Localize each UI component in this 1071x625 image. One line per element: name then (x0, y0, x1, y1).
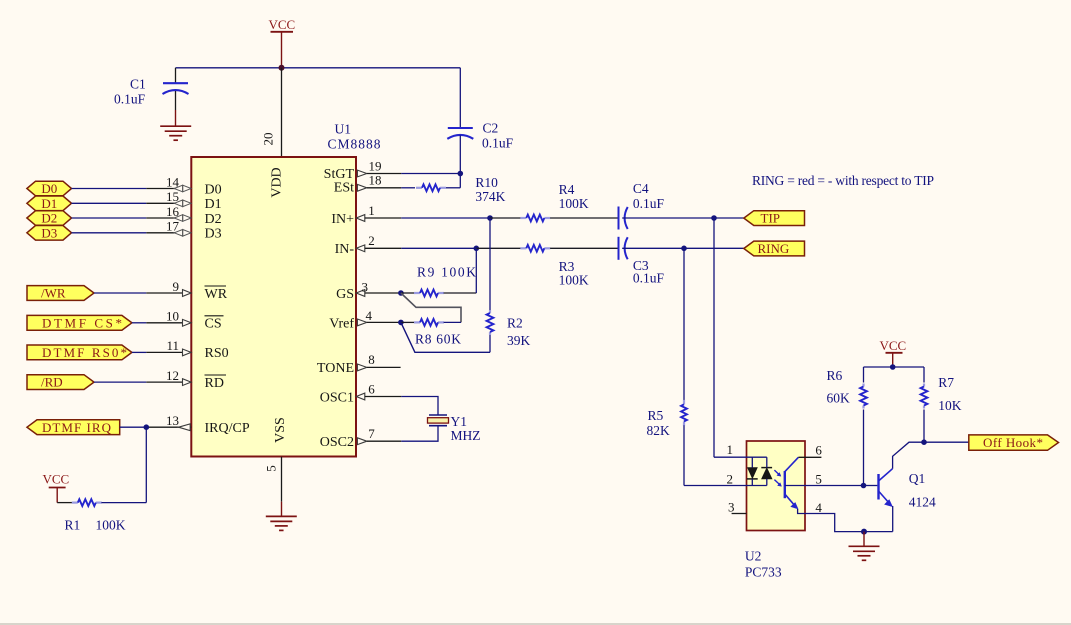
junction RING / R5 (681, 246, 687, 252)
svg-text:5: 5 (815, 472, 822, 487)
wire VCC rail (C1 to C2) (176, 67, 461, 69)
svg-text:0.1uF: 0.1uF (633, 196, 665, 211)
resistor R7 (921, 367, 928, 442)
pin number 18 (369, 173, 382, 188)
port flag /WR (27, 286, 94, 301)
pin name RD (overline) (205, 375, 227, 391)
pin arrow (bidir) D0 (174, 185, 191, 192)
svg-text:3: 3 (362, 280, 369, 295)
svg-text:18: 18 (369, 173, 382, 188)
port flag DTMF CS* (27, 315, 132, 330)
svg-text:13: 13 (166, 413, 179, 428)
pin number 14 (166, 174, 180, 189)
port flag D3 (27, 225, 72, 240)
C4 value 0.1uF (633, 181, 665, 211)
svg-text:60K: 60K (827, 391, 851, 406)
svg-text:2: 2 (368, 233, 375, 248)
svg-text:6: 6 (815, 443, 822, 458)
wire IN- to node (365, 247, 477, 249)
pin arrow IRQ output (179, 424, 191, 431)
svg-text:9: 9 (173, 279, 180, 294)
svg-text:D3: D3 (41, 225, 57, 240)
svg-text:100K: 100K (559, 272, 589, 287)
svg-text:10K: 10K (938, 398, 962, 413)
wire to U2 pin 1 (714, 456, 767, 458)
svg-text:IN-: IN- (335, 242, 355, 257)
wire TONE stub (367, 366, 401, 368)
svg-text:IRQ/CP: IRQ/CP (205, 421, 250, 436)
pin name D1 (205, 197, 222, 212)
pin name D0 (205, 182, 222, 197)
svg-text:D2: D2 (205, 212, 222, 227)
wire /RD to U1 pin 12 (94, 381, 191, 383)
pin number 16 (166, 204, 180, 219)
pin arrow ESt output (357, 184, 366, 191)
resistor R2 (487, 218, 494, 352)
pin number 1 (368, 203, 375, 218)
power symbol VCC (R6 R7) (880, 338, 907, 367)
pin arrow TONE output (357, 364, 366, 371)
pin number 6 (368, 381, 375, 396)
pin arrow StGT output (357, 170, 366, 177)
svg-text:RS0: RS0 (205, 346, 229, 361)
svg-text:7: 7 (368, 426, 375, 441)
pin number 17 (166, 219, 180, 234)
wire D2 to U1 (72, 217, 192, 219)
svg-text:CS: CS (205, 317, 222, 332)
pin number 2 (368, 233, 375, 248)
optocoupler U2 body (747, 441, 806, 531)
R4 value 100K (559, 182, 589, 211)
IC U1 CM8888 body (191, 157, 356, 457)
svg-text:PC733: PC733 (745, 564, 782, 579)
svg-text:TIP: TIP (761, 211, 781, 226)
pin number 3 (362, 280, 369, 295)
svg-text:8: 8 (368, 352, 375, 367)
junction Vref node (398, 320, 404, 326)
svg-text:RING: RING (758, 241, 790, 256)
svg-text:C2: C2 (483, 121, 499, 136)
pin number 13 (166, 413, 179, 428)
pin number 2 (U2) (727, 472, 734, 487)
wire D1 to U1 (72, 202, 192, 204)
Q1 value 4124 (909, 495, 936, 510)
resistor R1 (57, 499, 146, 506)
svg-text:VCC: VCC (43, 471, 70, 486)
svg-text:R4: R4 (559, 182, 575, 197)
svg-text:82K: 82K (647, 423, 671, 438)
svg-text:MHZ: MHZ (451, 428, 481, 443)
pin name OSC1 (320, 390, 354, 405)
pin number 19 (369, 158, 382, 173)
pin name IN+ (331, 212, 354, 227)
svg-text:R1: R1 (65, 517, 81, 532)
svg-text:D3: D3 (205, 227, 222, 242)
wire GS to R8 (gray) (401, 293, 461, 322)
pin name D2 (205, 212, 222, 227)
junction StGT / ESt / C2 (458, 171, 464, 177)
resistor R4 (490, 215, 619, 222)
wire VCC rail down to U1 pin 20 (281, 68, 283, 157)
junction emitter ground (861, 529, 867, 535)
ground (below C1) (160, 126, 191, 140)
pin number 11 (166, 338, 179, 353)
junction IN+ / R4 / R2 (487, 215, 493, 221)
pin number 20 (U1 VDD) (261, 133, 276, 146)
wire DTMF RS0* to U1 pin 11 (132, 351, 191, 353)
junction Q1 base (861, 483, 867, 489)
wire to U2 pin 2 (684, 485, 767, 487)
svg-text:VCC: VCC (269, 17, 296, 32)
pin 3 stub (U2) (728, 500, 747, 515)
svg-text:R6: R6 (827, 368, 843, 383)
R8 value 60K (415, 332, 461, 347)
capacitor C2 (447, 68, 473, 174)
svg-text:19: 19 (369, 158, 382, 173)
pin arrow Vref output (357, 319, 366, 326)
svg-text:Vref: Vref (329, 316, 354, 331)
svg-text:WR: WR (205, 287, 228, 302)
pin arrow IN+ input (356, 215, 365, 222)
svg-text:5: 5 (264, 465, 279, 472)
svg-text:D0: D0 (41, 181, 57, 196)
pin name WR (overline) (205, 286, 228, 302)
transistor Q1 (864, 469, 893, 507)
junction DTMF IRQ / R1 pullup (144, 424, 150, 430)
Y1 value MHZ (451, 414, 481, 443)
svg-text:C4: C4 (633, 181, 649, 196)
pin arrow RD input (183, 379, 192, 386)
pin name D3 (205, 227, 222, 242)
svg-text:D1: D1 (205, 197, 222, 212)
resistor R8 (401, 319, 461, 326)
R5 value 82K (647, 408, 671, 438)
U2 light arrows (774, 470, 781, 486)
pin name Vref (329, 316, 354, 331)
svg-text:10: 10 (166, 309, 179, 324)
pin number 6 (U2) (815, 443, 822, 458)
svg-text:TONE: TONE (317, 361, 354, 376)
pin arrow OSC1 input (356, 393, 365, 400)
wire OSC1 to Y1 (365, 397, 438, 416)
svg-text:100K: 100K (96, 517, 126, 532)
note RING polarity (752, 173, 934, 188)
svg-text:D0: D0 (205, 182, 222, 197)
svg-text:R8 60K: R8 60K (415, 332, 461, 347)
svg-text:U2: U2 (745, 548, 762, 563)
svg-text:VCC: VCC (880, 338, 907, 353)
pin name GS (336, 287, 354, 302)
wire C3 to RING (622, 247, 744, 249)
pin arrow (bidir) D3 (174, 230, 191, 237)
port flag D2 (27, 211, 72, 226)
wire RING node down to R5 (683, 248, 685, 400)
svg-text:R2: R2 (507, 315, 523, 330)
R10 value 374K (475, 175, 505, 204)
svg-text:20: 20 (261, 133, 276, 146)
wire ESt to R10 (367, 187, 415, 189)
pin number 4 (U2) (815, 500, 822, 515)
capacitor C1 value label (114, 77, 146, 107)
port flag D1 (27, 196, 72, 211)
wire U2 pin 5 to Q1 base (785, 485, 864, 487)
power symbol VCC (R1 pullup) (43, 471, 70, 502)
port flag RING (744, 241, 805, 256)
capacitor C2 value label (482, 121, 514, 151)
ground (Q1 emitter) (849, 532, 880, 561)
pin name IN- (335, 242, 355, 257)
resistor R6 (860, 367, 867, 486)
pin name OSC2 (320, 435, 354, 450)
svg-text:DTMF IRQ: DTMF IRQ (42, 420, 112, 435)
junction GS node (398, 290, 404, 296)
wire GS to node (365, 292, 401, 294)
svg-text:Q1: Q1 (909, 471, 926, 486)
R2 value 39K (507, 315, 531, 347)
capacitor C3 (619, 237, 628, 260)
junction R7 / Off Hook (921, 439, 927, 445)
svg-text:VSS: VSS (273, 417, 288, 443)
wire Q1 collector to Off Hook (893, 442, 969, 469)
svg-text:OSC1: OSC1 (320, 390, 354, 405)
svg-text:R7: R7 (938, 375, 954, 390)
wire OSC2 to Y1 (367, 426, 438, 442)
junction TIP / opto drive (711, 215, 717, 221)
pin name IRQ/CP (205, 421, 250, 436)
wire DTMF IRQ to U1 pin 13 (120, 426, 192, 428)
svg-text:R5: R5 (648, 408, 664, 423)
svg-text:1: 1 (368, 203, 375, 218)
junction VCC rail (890, 364, 896, 370)
resistor R9 (401, 248, 476, 296)
wire Vref to R2 bottom (401, 322, 490, 352)
R6 value 60K (827, 368, 851, 405)
svg-text:GS: GS (336, 287, 354, 302)
pin arrow (bidir) D1 (174, 200, 191, 207)
wire Q1 emitter down (892, 506, 894, 532)
wire Vref to node (367, 321, 401, 323)
pin name CS (overline) (205, 316, 224, 332)
wire U1 pin 5 VSS to ground (281, 457, 283, 517)
svg-text:RING = red = - with respect to: RING = red = - with respect to TIP (752, 173, 934, 188)
port flag D0 (27, 181, 72, 196)
svg-text:39K: 39K (507, 333, 531, 348)
pin name VSS (273, 417, 288, 443)
pin arrow OSC2 output (357, 438, 366, 445)
junction VCC rail / pin20 (279, 65, 285, 71)
wire /WR to U1 pin 9 (94, 292, 191, 294)
wire TIP node down to U2 pin 1 (713, 218, 715, 457)
pin number 12 (166, 368, 179, 383)
U2 value PC733 (745, 564, 782, 579)
svg-text:/RD: /RD (41, 375, 63, 390)
svg-text:4: 4 (366, 308, 373, 323)
pin number 15 (166, 189, 179, 204)
svg-text:/WR: /WR (41, 286, 66, 301)
svg-text:11: 11 (166, 338, 179, 353)
port flag DTMF RS0* (27, 345, 132, 360)
svg-text:D1: D1 (41, 196, 57, 211)
svg-text:3: 3 (728, 500, 735, 515)
wire VCC rail R6-R7 (864, 366, 925, 368)
R1 value 100K (65, 517, 126, 532)
resistor R5 (681, 400, 687, 486)
pin number 9 (173, 279, 180, 294)
U2 back-to-back LEDs (747, 457, 772, 485)
U2 reference (745, 548, 762, 563)
pin name RS0 (205, 346, 229, 361)
pin number 4 (366, 308, 373, 323)
svg-text:Y1: Y1 (451, 414, 468, 429)
wire DTMF CS* to U1 pin 10 (132, 322, 191, 324)
svg-text:0.1uF: 0.1uF (482, 136, 514, 151)
port flag Off Hook* (969, 435, 1059, 450)
svg-text:6: 6 (368, 381, 375, 396)
svg-text:374K: 374K (475, 189, 505, 204)
pin arrow RS0 input (183, 349, 192, 356)
svg-text:OSC2: OSC2 (320, 435, 354, 450)
pin number 1 (U2) (727, 442, 734, 457)
svg-text:RD: RD (205, 376, 224, 391)
ground (U1 VSS) (266, 516, 297, 530)
resistor R3 (476, 245, 618, 252)
pin number 7 (368, 426, 375, 441)
svg-text:C1: C1 (130, 77, 146, 92)
svg-text:U1: U1 (335, 122, 352, 137)
pin number 10 (166, 309, 179, 324)
capacitor C4 (619, 207, 628, 230)
Q1 reference (909, 471, 926, 486)
U2 phototransistor (785, 457, 822, 513)
pin arrow CS input (183, 319, 192, 326)
port flag DTMF IRQ (27, 420, 120, 435)
R9 value 100K (417, 264, 476, 279)
crystal Y1 (428, 415, 449, 426)
pin name StGT (324, 167, 355, 182)
pin arrow (bidir) D2 (174, 215, 191, 222)
wire D3 to U1 (72, 232, 192, 234)
wire D0 to U1 (72, 188, 192, 190)
R3 value 100K (559, 259, 589, 288)
svg-text:2: 2 (727, 472, 734, 487)
svg-text:12: 12 (166, 368, 179, 383)
pin arrow WR input (183, 290, 192, 297)
svg-text:ESt: ESt (334, 180, 354, 195)
svg-text:100K: 100K (559, 196, 589, 211)
pin arrow IN- input (356, 245, 365, 252)
svg-text:0.1uF: 0.1uF (633, 271, 665, 286)
pin name ESt (334, 180, 354, 195)
U1 reference CM8888 (328, 122, 381, 152)
svg-text:Off Hook*: Off Hook* (983, 435, 1043, 450)
wire R1 to IRQ net (145, 427, 147, 502)
svg-text:0.1uF: 0.1uF (114, 92, 146, 107)
svg-text:R9 100K: R9 100K (417, 264, 476, 279)
pin arrow GS input (356, 290, 365, 297)
port flag TIP (744, 211, 805, 226)
R7 value 10K (938, 375, 962, 413)
wire U2 pin 4 to ground rail (805, 514, 893, 532)
wire IN+ to node (365, 217, 490, 219)
pin name TONE (317, 361, 354, 376)
pin number 5 (264, 465, 279, 472)
pin number 8 (368, 352, 375, 367)
svg-text:CM8888: CM8888 (328, 137, 381, 152)
power symbol VCC (top, U1 VDD supply) (269, 17, 296, 68)
svg-text:D2: D2 (41, 211, 57, 226)
svg-text:1: 1 (727, 442, 734, 457)
C3 value 0.1uF (633, 258, 665, 285)
wire StGT to node EST (367, 173, 461, 175)
svg-text:R10: R10 (475, 175, 498, 190)
pin name VDD (270, 167, 285, 197)
svg-text:DTMF CS*: DTMF CS* (42, 315, 122, 330)
pin number 5 (U2) (815, 472, 822, 487)
svg-text:4124: 4124 (909, 495, 936, 510)
port flag /RD (27, 375, 94, 390)
resistor R10 (416, 174, 460, 192)
svg-text:IN+: IN+ (331, 212, 354, 227)
svg-text:VDD: VDD (270, 167, 285, 197)
capacitor C1 (163, 68, 189, 126)
junction IN- / R9 / R3 (474, 246, 480, 252)
wire C4 to TIP (622, 217, 744, 219)
